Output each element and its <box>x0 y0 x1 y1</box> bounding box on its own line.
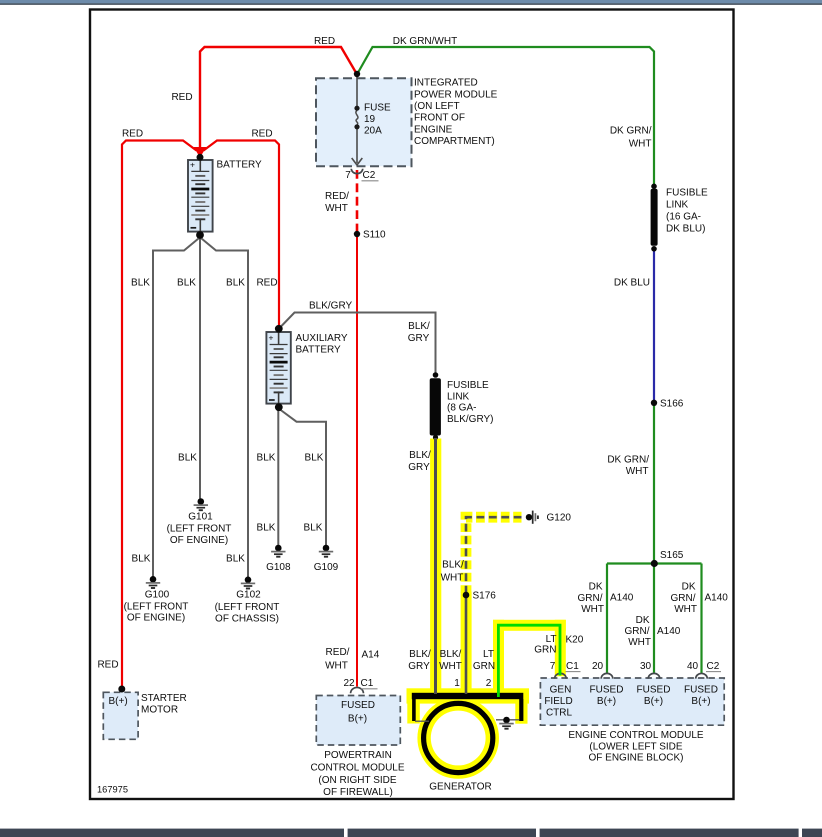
auxiliary battery negative terminal line <box>278 391 280 406</box>
generator left stub black <box>412 699 416 721</box>
svg-text:BATTERY: BATTERY <box>217 160 263 171</box>
wire generator case to ground <box>496 719 519 721</box>
svg-text:7: 7 <box>345 170 351 181</box>
svg-text:WHT: WHT <box>439 661 462 672</box>
wire generator left stub to circle thin line <box>415 720 429 722</box>
fuse 19 element squiggle <box>356 111 358 125</box>
fuse 19 wire inside IPM upper <box>356 76 358 106</box>
svg-text:BLK: BLK <box>178 453 197 464</box>
wire DK GRN/WHT top run to fusible link <box>358 47 655 186</box>
wire BLK battery negative to G101 <box>199 237 201 499</box>
svg-text:A14: A14 <box>362 650 380 661</box>
svg-text:+: + <box>269 333 274 343</box>
svg-text:GRY: GRY <box>408 661 430 672</box>
svg-text:ENGINE CONTROL MODULE: ENGINE CONTROL MODULE <box>568 730 704 741</box>
svg-text:C2: C2 <box>707 661 720 672</box>
svg-text:C2: C2 <box>363 170 376 181</box>
svg-text:FIELD: FIELD <box>544 696 572 707</box>
yellow highlight band on LT GRN wire horizontal <box>493 620 566 631</box>
svg-text:AUXILIARY: AUXILIARY <box>296 333 348 344</box>
svg-text:POWER MODULE: POWER MODULE <box>414 89 498 100</box>
svg-text:B(+): B(+) <box>597 696 616 707</box>
svg-text:GENERATOR: GENERATOR <box>429 782 491 793</box>
svg-text:BLK/: BLK/ <box>442 560 464 571</box>
battery internal plates <box>191 171 209 219</box>
connector C2 cup under IPM <box>351 169 362 174</box>
yellow highlight ring around generator circle <box>417 697 499 779</box>
svg-text:GEN: GEN <box>550 685 572 696</box>
svg-text:(16 GA-: (16 GA- <box>666 212 701 223</box>
svg-text:FUSED: FUSED <box>637 685 671 696</box>
svg-text:(LEFT FRONT: (LEFT FRONT <box>167 524 232 535</box>
svg-text:A140: A140 <box>705 593 729 604</box>
svg-text:19: 19 <box>364 114 376 125</box>
yellow highlight band on LT GRN wire leg at generator pin 2 <box>493 620 504 699</box>
wire RED/WHT dashed fuse output to splice S110 <box>356 170 359 232</box>
yellow highlight around generator left stub <box>407 699 420 724</box>
node dot below fusible link 8GA <box>433 435 438 440</box>
core line BLK/GRY on yellow band <box>434 438 437 694</box>
svg-text:DK: DK <box>589 582 603 593</box>
svg-text:G108: G108 <box>266 562 291 573</box>
svg-text:GRY: GRY <box>408 462 430 473</box>
red arrowhead at battery positive <box>194 147 207 158</box>
connector bump ECM pin 40 <box>696 673 708 678</box>
svg-text:G120: G120 <box>547 513 572 524</box>
auxiliary battery box <box>266 332 290 404</box>
svg-text:DK: DK <box>682 582 696 593</box>
svg-text:GRN/: GRN/ <box>671 593 696 604</box>
connector bump ECM pin 30 <box>648 673 660 678</box>
starter motor box <box>103 692 138 739</box>
yellow highlight band on BLK/GRY generator feed wire <box>430 439 441 699</box>
svg-text:S165: S165 <box>660 550 684 561</box>
svg-text:167975: 167975 <box>97 784 128 794</box>
connector C1 bump on PCM <box>351 687 364 693</box>
svg-text:LT: LT <box>483 649 494 660</box>
underline for C2 label ECM <box>706 671 721 673</box>
svg-text:BLK/GRY): BLK/GRY) <box>447 414 494 425</box>
svg-text:40: 40 <box>687 661 699 672</box>
core LT GRN wire generator pin 2 to ECM pin 7 <box>498 625 560 697</box>
wire BLK battery negative to G100 <box>153 239 199 577</box>
underline for C2 label <box>362 180 379 182</box>
wire RED/WHT splice S110 to PCM <box>356 234 358 687</box>
svg-text:S176: S176 <box>473 591 497 602</box>
svg-text:GRY: GRY <box>408 333 430 344</box>
svg-text:GRN: GRN <box>473 661 495 672</box>
fuse 19 top terminal dot <box>354 106 359 111</box>
generator circle black ring <box>424 703 493 772</box>
svg-text:LINK: LINK <box>447 391 470 402</box>
svg-text:FRONT OF: FRONT OF <box>414 113 465 124</box>
splice S165 dot <box>651 560 658 567</box>
bottom status bar segment 3 <box>540 829 799 837</box>
svg-text:BATTERY: BATTERY <box>296 345 342 356</box>
wire DK GRN/WHT splice S166 to ECM pin 30 <box>653 403 655 673</box>
ground at generator case <box>499 717 513 729</box>
splice S176 dot <box>463 592 470 599</box>
svg-text:BLK: BLK <box>304 523 323 534</box>
svg-text:2: 2 <box>486 678 492 689</box>
svg-text:GRN: GRN <box>534 644 556 655</box>
battery box <box>188 160 213 232</box>
splice S166 dot <box>651 400 657 406</box>
svg-text:BLK: BLK <box>257 453 276 464</box>
wire DK BLU fusible link to splice S166 <box>653 249 655 402</box>
ground G100 symbol <box>146 576 160 588</box>
generator circle white center <box>431 711 486 766</box>
node dot battery positive <box>197 154 204 161</box>
svg-text:FUSED: FUSED <box>341 700 375 711</box>
svg-text:BLK: BLK <box>131 278 150 289</box>
wire BLK/GRY auxiliary battery to fusible link <box>281 313 436 373</box>
svg-text:(8 GA-: (8 GA- <box>447 403 476 414</box>
svg-text:WHT: WHT <box>325 661 348 672</box>
svg-text:STARTER: STARTER <box>141 693 187 704</box>
node dot starter motor terminal <box>118 686 125 693</box>
svg-text:BLK: BLK <box>257 523 276 534</box>
generator top plate black bar <box>412 693 524 699</box>
svg-text:MOTOR: MOTOR <box>141 705 178 716</box>
svg-text:DK GRN/: DK GRN/ <box>607 455 649 466</box>
svg-text:DK: DK <box>636 615 650 626</box>
svg-text:POWERTRAIN: POWERTRAIN <box>324 750 392 761</box>
core dashed BLK/WHT from G120 corner to S176 <box>466 517 522 593</box>
yellow highlight dashed band on BLK/WHT wire to G120 <box>466 517 522 593</box>
wire BLK auxiliary battery to G108 <box>277 410 279 545</box>
svg-text:OF CHASSIS): OF CHASSIS) <box>215 614 279 625</box>
node dot battery negative <box>196 231 204 239</box>
svg-text:WHT: WHT <box>626 466 649 477</box>
connector bump ECM pin 7 <box>555 673 567 678</box>
svg-text:RED: RED <box>251 129 272 140</box>
svg-text:(ON LEFT: (ON LEFT <box>414 101 460 112</box>
svg-text:1: 1 <box>454 678 460 689</box>
svg-text:FUSE: FUSE <box>364 103 391 114</box>
svg-text:FUSIBLE: FUSIBLE <box>666 188 708 199</box>
yellow highlight band on BLK/WHT wire solid section <box>461 592 472 700</box>
svg-text:BLK/GRY: BLK/GRY <box>309 301 352 312</box>
battery minus sign <box>191 227 197 229</box>
ground G109 symbol <box>319 545 333 557</box>
svg-text:WHT: WHT <box>581 604 604 615</box>
ground G101 symbol <box>194 498 208 510</box>
node dot red green junction above IPM <box>354 71 360 77</box>
engine control module box <box>540 678 724 725</box>
bottom status bar segment 2 <box>348 829 536 837</box>
svg-text:DK BLU): DK BLU) <box>666 224 705 235</box>
node dot below fusible link 16GA <box>651 246 657 252</box>
underline for C1 label ECM <box>566 671 581 673</box>
svg-text:OF ENGINE): OF ENGINE) <box>127 613 185 624</box>
svg-text:RED: RED <box>122 129 143 140</box>
svg-text:RED: RED <box>171 92 192 103</box>
fusible link 16GA black bar <box>651 189 658 246</box>
yellow highlight band on LT GRN wire leg at ECM pin 7 <box>555 620 566 677</box>
svg-text:BLK: BLK <box>226 278 245 289</box>
svg-text:CTRL: CTRL <box>546 708 573 719</box>
svg-text:(LOWER LEFT SIDE: (LOWER LEFT SIDE <box>589 742 682 753</box>
integrated power module box <box>316 78 412 166</box>
battery positive terminal line <box>199 158 201 171</box>
svg-text:C1: C1 <box>566 661 579 672</box>
fuse 19 wire inside IPM lower with arrowhead <box>356 129 358 163</box>
core solid BLK/WHT from S176 to generator pin 1 <box>465 593 468 694</box>
svg-text:B(+): B(+) <box>109 696 128 707</box>
ground G120 symbol sideways <box>526 511 538 524</box>
svg-text:C1: C1 <box>361 678 374 689</box>
svg-text:BLK: BLK <box>305 453 324 464</box>
svg-text:+: + <box>190 160 195 170</box>
svg-text:OF ENGINE BLOCK): OF ENGINE BLOCK) <box>588 753 683 764</box>
svg-text:B(+): B(+) <box>691 696 710 707</box>
svg-text:GRN/: GRN/ <box>578 593 603 604</box>
fusible link 8GA black bar <box>430 378 441 435</box>
svg-text:(LEFT FRONT: (LEFT FRONT <box>124 602 189 613</box>
node dot auxiliary battery negative <box>275 403 283 411</box>
svg-text:RED/: RED/ <box>326 647 350 658</box>
auxiliary battery internal plates <box>270 345 288 393</box>
underline for C1 label PCM <box>361 688 378 690</box>
wire DK GRN/WHT to ECM pin 40 <box>700 564 702 674</box>
svg-text:S166: S166 <box>660 399 684 410</box>
powertrain control module box <box>316 696 400 746</box>
svg-text:BLK: BLK <box>132 554 151 565</box>
svg-text:RED: RED <box>97 660 118 671</box>
svg-text:G100: G100 <box>145 590 170 601</box>
svg-text:RED: RED <box>256 278 277 289</box>
top toolbar strip <box>0 0 822 3</box>
svg-text:RED: RED <box>314 36 335 47</box>
svg-text:WHT: WHT <box>674 604 697 615</box>
svg-text:ENGINE: ENGINE <box>414 124 453 135</box>
svg-text:WHT: WHT <box>441 573 464 584</box>
svg-text:RED/: RED/ <box>325 191 349 202</box>
svg-text:BLK/: BLK/ <box>409 450 431 461</box>
svg-text:30: 30 <box>640 661 652 672</box>
svg-text:FUSED: FUSED <box>684 685 718 696</box>
node dot above fusible link 16GA <box>651 184 657 190</box>
svg-text:GRN/: GRN/ <box>625 626 650 637</box>
svg-text:DK BLU: DK BLU <box>614 278 650 289</box>
svg-text:20: 20 <box>592 661 604 672</box>
svg-text:(ON RIGHT SIDE: (ON RIGHT SIDE <box>318 775 396 786</box>
svg-text:S110: S110 <box>363 230 386 241</box>
wire BLK battery negative to G102 <box>202 239 249 578</box>
node dot above fusible link 8GA <box>433 372 439 378</box>
svg-text:A140: A140 <box>657 626 681 637</box>
wire RED battery feed top horizontal <box>200 47 357 150</box>
svg-text:BLK/: BLK/ <box>409 649 431 660</box>
svg-text:OF ENGINE): OF ENGINE) <box>170 535 228 546</box>
svg-text:BLK/: BLK/ <box>440 649 462 660</box>
svg-text:(LEFT FRONT: (LEFT FRONT <box>215 602 280 613</box>
svg-text:CONTROL MODULE: CONTROL MODULE <box>310 763 404 774</box>
svg-text:FUSED: FUSED <box>590 685 624 696</box>
svg-text:B(+): B(+) <box>348 714 367 725</box>
svg-text:20A: 20A <box>364 126 382 137</box>
svg-text:BLK: BLK <box>177 278 196 289</box>
svg-text:G102: G102 <box>236 590 261 601</box>
svg-text:LT: LT <box>546 634 557 645</box>
svg-text:WHT: WHT <box>325 203 348 214</box>
wire RED battery to starter motor <box>122 141 197 688</box>
svg-text:INTEGRATED: INTEGRATED <box>414 78 478 89</box>
auxiliary battery positive terminal line <box>278 330 280 344</box>
connector bump ECM pin 20 <box>601 673 613 678</box>
svg-text:WHT: WHT <box>628 637 651 648</box>
yellow highlight around generator top plate <box>407 688 530 703</box>
ground G108 symbol <box>271 545 285 557</box>
svg-text:22: 22 <box>343 678 355 689</box>
svg-text:G101: G101 <box>188 512 213 523</box>
svg-text:A140: A140 <box>610 593 634 604</box>
svg-text:WHT: WHT <box>629 139 652 150</box>
auxiliary battery minus sign <box>269 399 275 401</box>
svg-text:K20: K20 <box>566 635 584 646</box>
svg-text:LINK: LINK <box>666 200 689 211</box>
node dot auxiliary battery positive <box>275 325 283 333</box>
wire DK GRN/WHT splice S165 horizontal <box>607 562 702 564</box>
svg-text:DK GRN/: DK GRN/ <box>610 126 652 137</box>
svg-text:OF FIREWALL): OF FIREWALL) <box>323 787 393 798</box>
svg-text:DK GRN/WHT: DK GRN/WHT <box>393 36 457 47</box>
wire DK GRN/WHT to ECM pin 20 <box>606 564 608 674</box>
svg-text:7: 7 <box>550 661 556 672</box>
svg-text:G109: G109 <box>314 562 339 573</box>
splice S110 dot <box>354 231 360 237</box>
svg-text:B(+): B(+) <box>644 696 663 707</box>
svg-text:COMPARTMENT): COMPARTMENT) <box>414 136 495 147</box>
generator right stub black <box>519 699 523 721</box>
svg-text:FUSIBLE: FUSIBLE <box>447 380 489 391</box>
yellow highlight around generator right stub <box>515 699 527 724</box>
wire RED battery to auxiliary battery <box>204 141 280 328</box>
arrowhead at IPM connector <box>352 158 363 165</box>
wire BLK auxiliary battery to G109 <box>280 410 326 546</box>
ground G102 symbol <box>241 577 255 589</box>
diagram border frame <box>90 10 734 800</box>
svg-text:BLK/: BLK/ <box>408 321 430 332</box>
bottom status bar segment 4 <box>802 829 822 837</box>
svg-text:BLK: BLK <box>226 554 245 565</box>
bottom status bar segment 1 <box>0 829 344 837</box>
battery negative terminal line <box>199 219 201 234</box>
fuse 19 bottom terminal dot <box>354 124 359 129</box>
